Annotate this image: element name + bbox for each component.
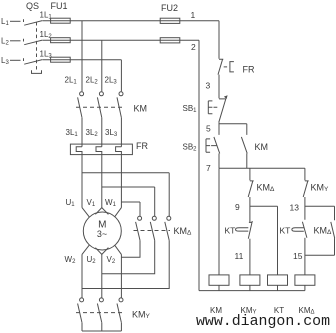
node 5 label	[206, 123, 211, 133]
motor terminal U1 label	[66, 198, 76, 208]
wire L3 row	[43, 59, 122, 61]
star point bar	[82, 323, 121, 331]
contact KT right label	[280, 225, 291, 235]
svg-text:SB1: SB1	[183, 104, 198, 114]
svg-text:KMY: KMY	[311, 182, 330, 193]
svg-text:1: 1	[191, 10, 196, 20]
svg-text:7: 7	[206, 163, 211, 173]
fuse FU1 label	[51, 1, 68, 11]
svg-text:KMΔ: KMΔ	[174, 226, 193, 237]
coil KM-delta	[295, 275, 315, 285]
FR control label	[243, 65, 255, 75]
wire drop 2L3	[120, 60, 122, 92]
wire node5	[219, 122, 247, 135]
overload relay FR label	[136, 141, 148, 151]
svg-text:11: 11	[235, 251, 244, 261]
coil KM label	[210, 306, 222, 315]
fuse FU2 label	[161, 3, 178, 13]
FR heater element 1	[76, 147, 82, 208]
wire node11 to KMY coil	[249, 239, 251, 275]
svg-text:2: 2	[191, 42, 196, 52]
wire KM to FR pole 3	[120, 118, 122, 147]
contactor KM label	[134, 104, 148, 114]
contact KT delayed (left)	[248, 221, 252, 239]
node 13 label	[290, 202, 300, 212]
coil KT label	[274, 306, 284, 315]
node L3 label	[1, 56, 9, 66]
pushbutton SB2 (NO)	[214, 137, 220, 154]
motor terminal W1 label	[105, 198, 117, 208]
node 7 label	[206, 163, 211, 173]
motor terminal U2 label	[87, 255, 97, 265]
svg-text:9: 9	[235, 202, 240, 212]
label 1L2	[40, 30, 53, 40]
pushbutton SB2 label	[183, 143, 198, 153]
svg-text:3: 3	[206, 81, 211, 91]
svg-text:KMΔ: KMΔ	[314, 225, 333, 236]
switch QS pole 2	[24, 39, 43, 45]
svg-text:W1: W1	[105, 198, 117, 208]
watermark	[196, 314, 330, 330]
contact KT left label	[225, 225, 236, 235]
contactor KM-delta pole 1	[139, 202, 141, 216]
motor lead diagonal V2	[115, 245, 122, 254]
fuse FU1 pole 2	[51, 38, 71, 43]
wire W2 down	[81, 254, 83, 297]
switch QS handle	[32, 70, 42, 73]
coil KM-delta label	[298, 306, 314, 316]
svg-text:L2: L2	[1, 37, 9, 47]
contactor KM linkage	[76, 106, 122, 108]
svg-text:FU1: FU1	[51, 1, 68, 11]
svg-text:U2: U2	[87, 255, 97, 265]
switch QS linkage	[36, 22, 38, 70]
wire L2 row	[43, 39, 200, 41]
svg-text:KMΔ: KMΔ	[257, 182, 276, 193]
wire left rail	[198, 40, 200, 290]
svg-text:V1: V1	[87, 198, 96, 208]
motor terminal V2 label	[107, 255, 116, 265]
contactor KM-Y label	[132, 310, 151, 321]
node 2 label	[191, 42, 196, 52]
contactor KM-delta pole 3	[168, 173, 170, 216]
wire KM to FR pole 1	[81, 118, 83, 147]
coil KMY label	[240, 306, 256, 316]
coil bottom stubs	[219, 285, 305, 290]
wire node9 to KT coil	[250, 206, 278, 275]
coil KT	[268, 275, 288, 285]
wire W1 feed to KM-delta pole 1 top	[121, 201, 140, 203]
motor lead diagonal W2	[82, 245, 89, 254]
switch QS pole 3	[24, 58, 43, 64]
wire drop 2L2	[101, 40, 103, 91]
node L2 label	[1, 37, 9, 47]
motor lead diagonal U2 right	[102, 248, 109, 255]
svg-text:3L1: 3L1	[66, 128, 79, 138]
contactor KM-Y pole 2	[99, 298, 103, 302]
svg-text:SB2: SB2	[183, 143, 198, 153]
wire V1 feed to KM-delta pole 2 top	[102, 186, 155, 188]
svg-text:3L2: 3L2	[86, 128, 99, 138]
wire U1 feed to KM-delta pole 3 top	[82, 172, 169, 174]
motor terminal W2 label	[65, 255, 77, 265]
svg-text:QS: QS	[26, 1, 39, 11]
motor lead diagonal V1 left	[95, 208, 101, 215]
svg-text:15: 15	[293, 251, 303, 261]
wire U2 down	[101, 254, 103, 297]
svg-text:W2: W2	[65, 255, 77, 265]
svg-text:3L3: 3L3	[105, 128, 118, 138]
wire branch A top	[249, 168, 251, 180]
motor terminal V1 label	[87, 198, 96, 208]
switch QS label	[26, 1, 39, 11]
wire node1 drop	[218, 21, 220, 59]
svg-text:V2: V2	[107, 255, 116, 265]
svg-text:KT: KT	[225, 225, 236, 235]
contact KT delayed (right)	[302, 222, 307, 238]
wire KM to FR pole 2	[101, 118, 103, 147]
wire L1 row	[43, 20, 220, 22]
node 9 label	[235, 202, 240, 212]
contact KM aux (NO)	[241, 124, 247, 169]
motor M text	[97, 219, 107, 239]
contact KM-Y aux (NC)	[303, 181, 309, 220]
wire bottom bus	[199, 290, 305, 292]
svg-text:KM: KM	[255, 142, 269, 152]
motor lead diagonal U2 left	[95, 248, 101, 255]
node L1 label	[1, 17, 9, 27]
fuse FU2 pole 2	[160, 38, 180, 43]
wire SB2 bottom	[218, 153, 220, 168]
svg-text:L1: L1	[1, 17, 9, 27]
node 1 label	[191, 10, 196, 20]
node 15 label	[293, 251, 303, 261]
motor lead diagonal U1	[82, 208, 89, 217]
svg-text:13: 13	[290, 202, 300, 212]
wire L2 stub	[10, 40, 21, 42]
svg-text:FU2: FU2	[161, 3, 178, 13]
pushbutton SB1 (NC)	[219, 97, 227, 122]
svg-text:5: 5	[206, 123, 211, 133]
wire FR to SB1	[218, 75, 220, 99]
FR heater element 2	[96, 147, 102, 208]
svg-text:KT: KT	[280, 225, 291, 235]
fuse FU1 pole 1	[51, 18, 71, 23]
overload relay FR box	[70, 144, 132, 155]
svg-text:FR: FR	[243, 65, 255, 75]
label 1L3	[40, 50, 53, 60]
contactor KM main pole 1	[80, 92, 84, 96]
svg-text:KM: KM	[134, 104, 148, 114]
svg-text:2L1: 2L1	[65, 76, 78, 86]
coil KM	[209, 275, 229, 285]
contact KM-Y aux label	[311, 182, 330, 193]
svg-text:KMY: KMY	[132, 310, 151, 321]
label 1L1	[40, 11, 53, 21]
contact KM-delta parallel label	[314, 225, 333, 236]
label 2L2	[86, 76, 99, 86]
svg-text:2L2: 2L2	[86, 76, 99, 86]
motor M circle	[83, 212, 121, 250]
svg-text:U1: U1	[66, 198, 76, 208]
svg-text:2L3: 2L3	[105, 76, 118, 86]
coil KMY	[240, 275, 260, 285]
label 2L1	[65, 76, 78, 86]
contactor KM-Y linkage	[76, 312, 122, 314]
wire KM-delta pole2 to U2	[102, 240, 155, 273]
FR heater element 3	[116, 147, 122, 208]
fuse FU1 pole 3	[51, 57, 71, 62]
svg-text:FR: FR	[136, 141, 148, 151]
label 2L3	[105, 76, 118, 86]
node 11 label	[235, 251, 244, 261]
wire drop 2L1	[81, 21, 83, 92]
motor lead diagonal V1 right	[102, 208, 109, 215]
contact KM aux label	[255, 142, 269, 152]
wire L3 stub	[10, 59, 21, 61]
contactor KM-delta label	[174, 226, 193, 237]
contact KM-delta aux (NO) parallel	[305, 206, 335, 255]
label 3L1	[66, 128, 79, 138]
switch QS pole 1	[24, 19, 43, 25]
relay contact FR (NC)	[218, 59, 223, 74]
wire KM coil rail	[218, 168, 220, 275]
contactor KM-Y pole 1	[80, 298, 84, 302]
contact KM-delta aux label	[257, 182, 276, 193]
wire KM-delta pole1 to V2	[121, 240, 140, 257]
wire branch B top	[304, 168, 306, 180]
wire KM-delta pole3 to W2	[82, 240, 169, 288]
wire L1 stub	[10, 20, 21, 22]
contactor KM-Y pole 3	[119, 298, 123, 302]
contactor KM main pole 2	[99, 92, 103, 96]
wire node15	[304, 238, 306, 275]
wire node7 bus	[219, 167, 305, 169]
FR trip device	[224, 62, 234, 72]
label 3L2	[86, 128, 99, 138]
motor lead diagonal W1	[115, 208, 122, 217]
svg-text:3~: 3~	[97, 229, 107, 239]
contactor KM-delta linkage	[134, 230, 171, 232]
label 3L3	[105, 128, 118, 138]
wire node13 branch	[305, 205, 335, 207]
wire V2 down	[120, 254, 122, 297]
svg-text:L3: L3	[1, 56, 9, 66]
pushbutton SB1 label	[183, 104, 198, 114]
contact KM-delta aux (NC)	[248, 181, 254, 223]
svg-text:www.diangon.com: www.diangon.com	[196, 314, 330, 330]
fuse FU2 pole 1	[160, 18, 180, 23]
node 3 label	[206, 81, 211, 91]
contactor KM-delta pole 2	[154, 187, 156, 216]
contactor KM main pole 3	[119, 92, 123, 96]
